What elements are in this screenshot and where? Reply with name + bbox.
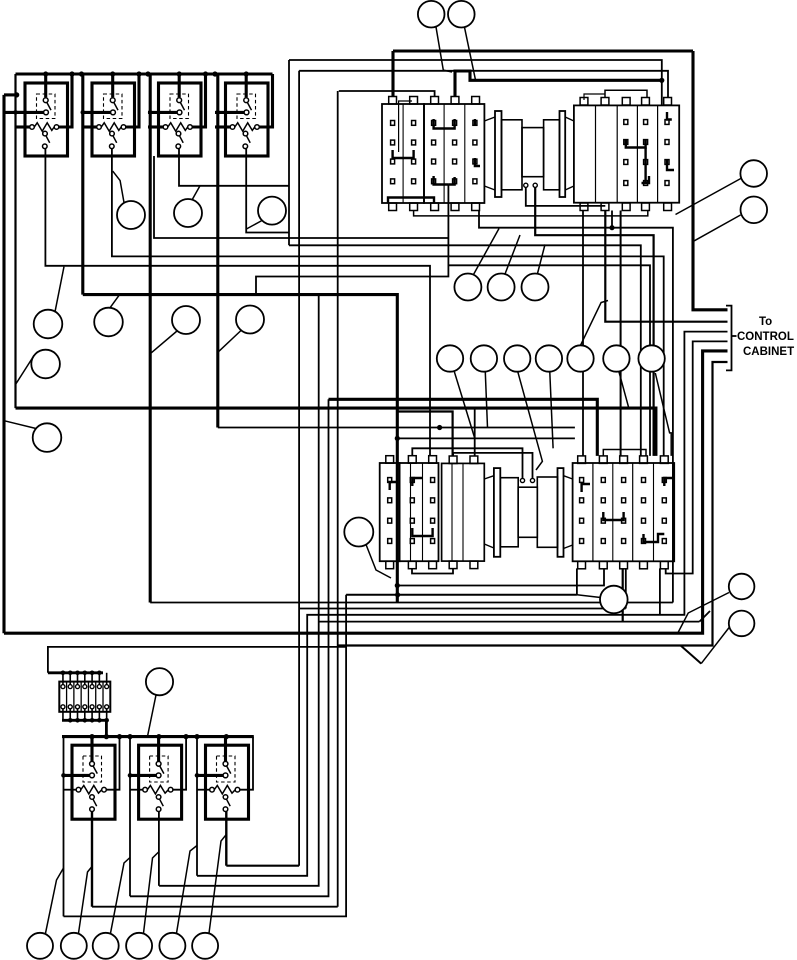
wire w2 vertical bbox=[605, 211, 727, 322]
leader T1 bbox=[436, 27, 452, 72]
callout circle L2 bbox=[600, 586, 628, 614]
leader L1 bbox=[366, 545, 391, 579]
callout circle M3 bbox=[504, 345, 530, 371]
wire y411 thick bbox=[397, 412, 452, 457]
wire y227 bbox=[479, 211, 673, 603]
terminal b2 bbox=[530, 478, 534, 482]
callout circle B1 bbox=[27, 933, 53, 959]
wire right main drop bbox=[693, 51, 728, 310]
bottom feed dots bbox=[61, 773, 199, 778]
terminal block top bus bbox=[48, 671, 103, 674]
wire x289 drop bbox=[288, 60, 290, 245]
terminal a1 bbox=[524, 183, 528, 187]
junction dot y80 bbox=[659, 78, 664, 83]
wire x577 up bbox=[576, 568, 578, 594]
leader M7 wire bbox=[655, 373, 671, 456]
wire x393 down to tab bbox=[391, 51, 394, 97]
wire y398 thick bbox=[329, 399, 598, 456]
leader E bbox=[113, 171, 124, 202]
callout circle A bbox=[34, 310, 63, 339]
leader M4 bbox=[550, 372, 553, 448]
leader B bbox=[110, 296, 119, 308]
junction dot x16 bbox=[14, 92, 19, 97]
brush block assembly top-right bbox=[574, 90, 679, 210]
relay K6 bbox=[130, 737, 186, 820]
junction dot y427 bbox=[437, 425, 442, 430]
leader N1 bbox=[474, 229, 500, 275]
callout circle L1 bbox=[344, 518, 373, 547]
wire y238 link bbox=[154, 156, 448, 238]
wire x625 up bbox=[625, 568, 627, 608]
bottom relay bus bbox=[62, 735, 254, 738]
callout circle T2 bbox=[448, 1, 475, 28]
leader F bbox=[192, 186, 200, 200]
wire bottom relay1 switch down bbox=[91, 812, 93, 907]
svg-text:CABINET: CABINET bbox=[743, 346, 794, 358]
wire relay4 switch east bbox=[246, 149, 289, 233]
callout circle M6 bbox=[603, 345, 629, 371]
terminal block bottom bus dots bbox=[68, 718, 109, 723]
wire y91 link bbox=[339, 91, 435, 97]
terminal block bottom bus bbox=[62, 720, 106, 736]
wire y408 bus thick bbox=[16, 408, 656, 456]
brush block assembly top-left bbox=[382, 97, 648, 216]
wire under jumper lower-left bbox=[412, 568, 453, 573]
callout circle B3 bbox=[93, 933, 119, 959]
wire x328 long bbox=[130, 399, 329, 896]
leader R4 bbox=[701, 627, 729, 664]
wire w6 loop bbox=[338, 362, 728, 646]
callout circle M7 bbox=[638, 345, 664, 371]
wire w4 bbox=[666, 341, 728, 573]
wire w7 lower bbox=[64, 595, 347, 917]
callout circle R4 bbox=[729, 611, 755, 637]
callout circle M4 bbox=[536, 345, 562, 371]
wire y608 bbox=[299, 608, 626, 610]
callout circle R3 bbox=[729, 574, 755, 600]
wire relay1 left rail bbox=[14, 74, 16, 408]
relay K5 bbox=[64, 737, 120, 820]
wire w5 thick main bbox=[4, 351, 728, 633]
junction dot y227 bbox=[609, 225, 614, 230]
leader T2 bbox=[465, 27, 476, 80]
relay K4 bbox=[215, 74, 273, 156]
callout circle B5 bbox=[159, 933, 185, 959]
wire terminal a2 down-right bbox=[535, 187, 653, 456]
label To CONTROL CABINET bbox=[737, 316, 794, 358]
leader M1 bbox=[454, 372, 475, 439]
wire y427 bbox=[218, 427, 575, 429]
wire relay2 left rail bbox=[81, 74, 84, 295]
wire x660 up bbox=[659, 568, 661, 614]
callout circle E bbox=[117, 201, 145, 229]
wire stub x612 bbox=[611, 211, 613, 228]
leader H bbox=[16, 356, 35, 385]
wire bus y294 thick bbox=[83, 295, 398, 603]
leader R1 bbox=[676, 179, 741, 215]
svg-text:CONTROL: CONTROL bbox=[737, 331, 794, 343]
callout circle B6 bbox=[192, 933, 218, 959]
wire y245 east bbox=[289, 245, 641, 456]
callout circle H bbox=[31, 350, 60, 379]
wire left stub y95 bbox=[4, 93, 17, 96]
leader B3 bbox=[111, 858, 131, 934]
wire w6 bottom bbox=[92, 906, 338, 908]
top bus junction dots bbox=[43, 71, 249, 76]
wire y60 outer bbox=[289, 60, 662, 105]
leader G bbox=[246, 221, 262, 230]
terminal block TB1 bbox=[59, 673, 110, 720]
callout circle M2 bbox=[471, 345, 497, 371]
leader N2 bbox=[505, 235, 520, 274]
callout circle TB bbox=[146, 668, 173, 695]
callout circle B4 bbox=[126, 933, 152, 959]
relay K3 bbox=[148, 74, 206, 156]
wire y265 link bbox=[448, 265, 650, 456]
wire terminal a1 down-right bbox=[526, 187, 606, 206]
leader B5 bbox=[177, 846, 198, 934]
leader B6 bbox=[209, 835, 226, 934]
wire bottom relay2 switch down bbox=[158, 812, 160, 886]
wire x299 long vertical bbox=[298, 71, 300, 866]
wire bottom relay3 left rail bbox=[196, 737, 198, 876]
callout circle N1 bbox=[454, 274, 481, 301]
wire top bus thick y51 bbox=[393, 49, 693, 52]
wire w6 vee bbox=[681, 646, 702, 664]
callout circle R2 bbox=[741, 197, 768, 224]
wire left edge vertical bbox=[2, 95, 5, 633]
wire TB feed bbox=[48, 647, 346, 673]
wire x318 long bbox=[159, 295, 319, 886]
terminal block top bus dots bbox=[61, 671, 102, 676]
leader TB bbox=[148, 695, 157, 736]
leader A bbox=[55, 267, 64, 312]
wire relay4 left rail bbox=[216, 74, 219, 428]
wire w4b loop bbox=[319, 621, 700, 623]
wire bottom relay2 left rail bbox=[129, 737, 131, 897]
leader I bbox=[4, 421, 36, 429]
wire relay3 left rail bbox=[149, 74, 152, 603]
relay K2 bbox=[82, 74, 140, 156]
leader B2 bbox=[79, 867, 93, 934]
leader L2 bbox=[577, 595, 601, 598]
callout circle C bbox=[172, 306, 200, 334]
connector bracket to control cabinet bbox=[726, 306, 737, 371]
feed junction dots bbox=[13, 110, 220, 115]
callout circle D bbox=[236, 306, 264, 334]
leader R3 bbox=[678, 593, 729, 633]
wire y585 bbox=[397, 568, 604, 585]
wire bottom relay3 switch down bbox=[225, 812, 227, 866]
leader B1 bbox=[46, 868, 64, 933]
callout circle T1 bbox=[418, 1, 445, 28]
top relay supply bus bbox=[16, 72, 273, 75]
callout circle M1 bbox=[437, 345, 463, 371]
callout circle B bbox=[94, 308, 123, 337]
leader M2 bbox=[485, 372, 487, 427]
terminal a2 bbox=[533, 183, 537, 187]
wire y605 lower bbox=[150, 602, 673, 604]
callout circle R1 bbox=[740, 160, 767, 187]
armature coupling top bbox=[484, 111, 574, 197]
leader N3 bbox=[538, 245, 546, 274]
leader M5 bbox=[581, 301, 609, 346]
wire terminal b2 up bbox=[453, 453, 532, 479]
wire terminal b1 up bbox=[412, 448, 522, 478]
junction dot y585 bbox=[395, 583, 400, 588]
callout circle I bbox=[33, 423, 62, 452]
wire x337 long vertical bbox=[337, 91, 339, 907]
wire relay2 switch east bbox=[112, 149, 664, 456]
wire tab drop x448 bbox=[256, 185, 448, 295]
relay K7 bbox=[197, 737, 253, 820]
wire tab to tab x620 bbox=[620, 211, 622, 456]
leader M6 bbox=[619, 372, 629, 408]
bottom bus dots bbox=[89, 734, 229, 739]
callout circle M5 bbox=[567, 345, 593, 371]
terminal b1 bbox=[520, 478, 524, 482]
callout circle N3 bbox=[522, 274, 549, 301]
wire drop x474 bbox=[474, 408, 476, 456]
wire y865 inner bbox=[226, 865, 299, 867]
wire thick y80 bbox=[455, 71, 662, 97]
svg-text:To: To bbox=[759, 316, 772, 328]
callout circle G bbox=[258, 197, 286, 225]
wire w4b diag bbox=[699, 611, 710, 622]
leader B4 bbox=[144, 852, 160, 934]
wire block drop x622 bbox=[622, 568, 624, 621]
wire relay1 switch east bbox=[45, 149, 430, 456]
slip ring block bottom bbox=[442, 456, 485, 569]
junction dot y438 bbox=[395, 436, 400, 441]
armature coupling bottom bbox=[484, 468, 572, 557]
wire w3 loop bbox=[197, 332, 728, 876]
leader C bbox=[151, 331, 177, 353]
leader M3 bbox=[518, 372, 543, 470]
callout circle B2 bbox=[61, 933, 87, 959]
wire relay1 feed bbox=[4, 111, 27, 114]
wire bottom relay1 left rail bbox=[63, 737, 65, 917]
wire relay3 switch via jumper bbox=[179, 149, 289, 186]
leader R2 bbox=[694, 215, 740, 241]
wire y70 outer bbox=[299, 71, 668, 98]
wire tab to tab x583 bbox=[582, 211, 584, 456]
brush block assembly bottom-left bbox=[380, 456, 439, 569]
callout circle N2 bbox=[488, 274, 515, 301]
wire y438 bbox=[397, 437, 575, 439]
brush block assembly bottom-right bbox=[573, 450, 675, 569]
wire y595 bbox=[346, 594, 577, 596]
leader D bbox=[217, 331, 241, 353]
callout circle F bbox=[174, 199, 202, 227]
junction dot y595 bbox=[395, 592, 400, 597]
relay K1 bbox=[15, 74, 73, 156]
